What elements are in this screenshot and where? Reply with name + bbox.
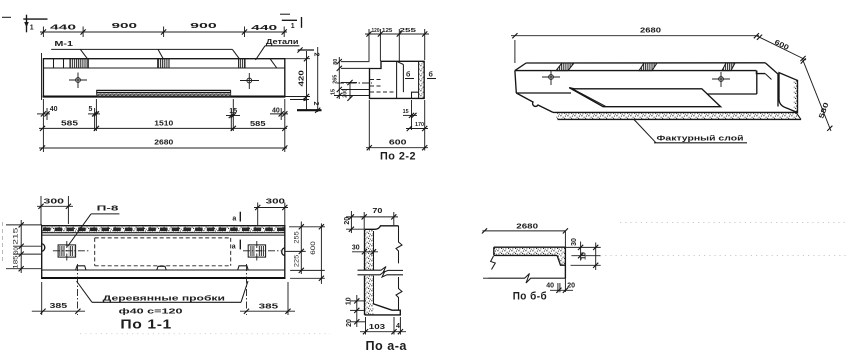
- right dims 255/225/600: [285, 222, 325, 284]
- bottom left dims 10/20: [356, 295, 358, 327]
- dim 70 top: [360, 216, 398, 218]
- dim 385 left: [32, 282, 85, 315]
- scan artifacts: faint dotted lines: [80, 223, 846, 334]
- section mark 1 (top-left): [2, 15, 48, 33]
- label P-8 with leader: [68, 206, 120, 247]
- bottom-right rebate step: [412, 92, 419, 98]
- svg-text:20: 20: [344, 217, 351, 225]
- svg-text:М-1: М-1: [54, 41, 73, 48]
- svg-text:2: 2: [312, 102, 319, 106]
- facing strip textured: [365, 229, 374, 270]
- svg-text:Деревянные пробки: Деревянные пробки: [103, 294, 225, 302]
- cut extension line: [564, 231, 566, 292]
- svg-text:По а-а: По а-а: [366, 338, 408, 353]
- svg-text:40: 40: [272, 108, 280, 115]
- svg-text:215: 215: [13, 227, 20, 245]
- svg-text:20: 20: [346, 319, 353, 327]
- centerline: [337, 82, 372, 84]
- svg-text:120: 120: [372, 28, 380, 34]
- svg-text:385: 385: [50, 303, 68, 310]
- ledge left slope with notch: [516, 93, 553, 112]
- label Detali with leader: [256, 39, 300, 60]
- plug centerlines down: [77, 264, 79, 315]
- dim 30: [352, 251, 378, 253]
- dim line 585/1510/585: [39, 120, 287, 131]
- svg-text:900: 900: [190, 23, 217, 30]
- svg-text:ф40 с=120: ф40 с=120: [119, 309, 183, 316]
- svg-text:900: 900: [112, 23, 138, 30]
- dim 2680: [482, 230, 565, 232]
- dim 600 (diagonal): [756, 36, 806, 60]
- svg-text:40: 40: [546, 283, 554, 290]
- svg-text:По 2-2: По 2-2: [380, 151, 416, 163]
- facing texture band: [494, 248, 565, 256]
- svg-text:300: 300: [266, 198, 285, 205]
- wooden plug left: [53, 241, 90, 261]
- svg-text:40: 40: [50, 106, 58, 113]
- svg-text:385: 385: [259, 303, 279, 310]
- right notch: [282, 248, 285, 256]
- svg-text:255: 255: [294, 231, 301, 244]
- panel top face: [526, 62, 765, 64]
- dim 300 left: [37, 196, 73, 225]
- dim 20 top left: [350, 211, 352, 233]
- svg-text:265: 265: [333, 75, 339, 84]
- svg-text:1: 1: [291, 23, 295, 30]
- anchor hatch block middle: [158, 59, 169, 68]
- svg-text:125: 125: [382, 28, 392, 34]
- web right break line: [396, 226, 402, 264]
- inner verticals: [396, 61, 398, 98]
- svg-text:30: 30: [571, 238, 578, 246]
- wedge (sloped plank): [569, 88, 720, 107]
- svg-text:30: 30: [13, 247, 20, 254]
- mid break lines: [358, 267, 389, 273]
- svg-text:Фактурный слой: Фактурный слой: [657, 134, 744, 142]
- web right below break: [396, 277, 402, 310]
- svg-text:420: 420: [299, 70, 306, 86]
- bottom dims 103/4: [360, 331, 406, 333]
- facing strip bottom line: [43, 67, 284, 69]
- panel outline: [43, 59, 284, 97]
- bar right edge: [564, 247, 566, 278]
- facing layer texture: [419, 62, 424, 98]
- svg-text:2680: 2680: [154, 139, 173, 146]
- texture bottom line: [494, 254, 557, 256]
- right end face: [765, 63, 778, 107]
- svg-text:1: 1: [30, 24, 34, 31]
- svg-text:80: 80: [333, 59, 339, 65]
- svg-text:2680: 2680: [516, 223, 538, 230]
- svg-text:440: 440: [50, 24, 76, 31]
- foot: [365, 304, 401, 315]
- right end step: [756, 71, 765, 74]
- plug notches on bottom inner line: [76, 266, 86, 270]
- panel left extension line: [41, 53, 43, 100]
- svg-text:5: 5: [89, 106, 93, 113]
- svg-text:15: 15: [403, 109, 409, 115]
- left dims 215/30/185: [6, 220, 42, 273]
- anchor hatch block left: [70, 59, 88, 68]
- bar left end + break: [493, 247, 495, 255]
- ledge front edge: [553, 111, 796, 113]
- svg-text:15: 15: [331, 89, 337, 95]
- svg-text:600: 600: [389, 140, 407, 147]
- left notch: [42, 244, 45, 252]
- outline: [42, 226, 285, 278]
- svg-text:Детали: Детали: [266, 39, 299, 46]
- bottom wedge strip (facing layer edge): [96, 90, 231, 96]
- strip dividers: [54, 59, 277, 68]
- svg-text:а: а: [232, 216, 236, 223]
- svg-text:200: 200: [343, 89, 349, 98]
- svg-text:255: 255: [400, 28, 417, 34]
- anchor hatch block right: [239, 59, 245, 68]
- front face bottom edge (left, right): [516, 92, 571, 94]
- svg-text:20: 20: [567, 282, 575, 289]
- svg-text:4: 4: [396, 323, 400, 330]
- lifting loops: [542, 70, 560, 85]
- section outline: [370, 61, 425, 98]
- svg-text:2: 2: [313, 53, 320, 57]
- svg-text:70: 70: [372, 208, 382, 215]
- svg-text:30: 30: [352, 245, 360, 252]
- top dimension line 440/900/900/440: [40, 23, 287, 37]
- svg-text:1510: 1510: [154, 120, 173, 127]
- bar bottom edge with break: [489, 274, 566, 284]
- svg-text:2680: 2680: [640, 27, 661, 34]
- dim 2680: [511, 35, 759, 37]
- dim 385 right: [240, 282, 295, 315]
- lower mark 2: [290, 99, 309, 101]
- label wooden plugs: [77, 281, 249, 316]
- dim 580 (diagonal): [802, 59, 831, 131]
- svg-text:185: 185: [13, 255, 20, 269]
- Po 2-2 bottom dims 15/170/600: [366, 100, 428, 151]
- svg-text:б: б: [429, 71, 434, 79]
- svg-text:103: 103: [369, 324, 385, 331]
- section marks 2 (right side) + 420 dim: [285, 47, 321, 113]
- svg-text:б: б: [406, 71, 411, 79]
- svg-text:По б-б: По б-б: [513, 291, 547, 303]
- a section marks: [232, 212, 241, 251]
- elevation bottom small dims 40/5/15/40: [37, 99, 288, 152]
- facing bar top edge: [494, 246, 566, 248]
- bottom inner line: [42, 269, 285, 271]
- dim line 2680: [39, 139, 287, 150]
- svg-text:15: 15: [229, 108, 237, 115]
- svg-text:10: 10: [581, 252, 588, 260]
- top edge: [365, 226, 399, 230]
- wooden plug right: [243, 241, 281, 261]
- hidden dashed rectangle: [95, 238, 231, 266]
- lifting loop right: [240, 73, 259, 89]
- svg-text:а: а: [232, 243, 236, 250]
- svg-text:По 1-1: По 1-1: [120, 317, 171, 332]
- section mark 1 (top-right): [280, 14, 302, 30]
- bottom dims 40/20: [546, 282, 575, 293]
- lifting loop left: [69, 73, 87, 89]
- facing texture band: [42, 226, 284, 232]
- Po 2-2 left dims 80/265/15 and 200: [331, 57, 370, 101]
- Po 2-2 top dims 120/225/255: [365, 28, 429, 61]
- svg-text:170: 170: [415, 122, 424, 128]
- svg-text:П-8: П-8: [97, 206, 119, 213]
- right dims 30/10: [565, 238, 600, 270]
- dim 300 right: [254, 198, 288, 226]
- front face left edge: [515, 71, 516, 93]
- svg-text:10: 10: [346, 297, 353, 305]
- svg-text:600: 600: [310, 241, 317, 255]
- svg-text:300: 300: [44, 199, 65, 206]
- ledge bottom textured band: [558, 118, 802, 120]
- dashed anchor lines: [370, 79, 383, 81]
- rebate wedge: [557, 255, 565, 265]
- panel bottom edge bold: [43, 96, 286, 98]
- top hatch blocks: [556, 63, 735, 71]
- label M-1 with leader: [51, 41, 239, 58]
- svg-text:440: 440: [251, 25, 277, 32]
- svg-text:585: 585: [250, 121, 266, 128]
- rib block right: [779, 73, 798, 113]
- svg-text:585: 585: [61, 121, 78, 128]
- svg-text:225: 225: [294, 254, 301, 267]
